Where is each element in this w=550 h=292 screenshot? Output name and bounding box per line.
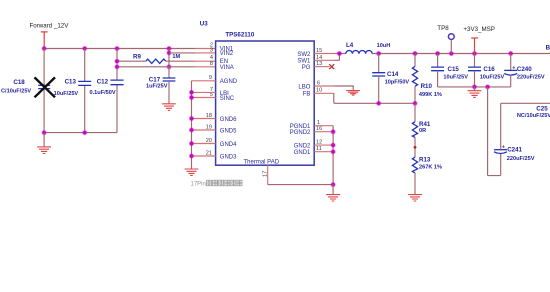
pin PG stub <box>314 66 329 68</box>
pin VIN2 stub <box>196 52 216 54</box>
wire VIN2 <box>169 52 196 54</box>
svg-text:R10: R10 <box>421 83 433 90</box>
wire output ground bus <box>438 86 511 88</box>
svg-text:FB: FB <box>303 92 311 98</box>
svg-text:3: 3 <box>210 47 213 53</box>
wire VIN link vertical <box>168 49 170 67</box>
junction VIN bus at C13 <box>82 46 87 51</box>
note text 17Pin thermal pad (Chinese) <box>191 180 243 187</box>
svg-text:Forward _12V: Forward _12V <box>30 23 70 30</box>
svg-text:GND6: GND6 <box>220 117 237 123</box>
junction FB at R10/R41 <box>412 101 417 106</box>
svg-text:PGND2: PGND2 <box>290 130 311 136</box>
junction bracket at LBI <box>189 90 194 95</box>
pin GND2 stub <box>314 144 333 146</box>
svg-text:C/10uF/25V: C/10uF/25V <box>1 89 31 95</box>
svg-text:TPS62110: TPS62110 <box>225 31 254 38</box>
wire C25 net to edge <box>501 102 550 104</box>
wire AGND/GND bracket vertical <box>191 81 193 169</box>
wire FB down and right <box>334 93 415 103</box>
junction VIN bus at C18 <box>42 46 47 51</box>
ground below R13 <box>408 195 422 201</box>
wire C241 branch left vertical <box>488 87 501 176</box>
svg-text:SW1: SW1 <box>297 59 311 65</box>
junction bracket at GND4 <box>189 141 194 146</box>
resistor R9 <box>133 54 181 64</box>
svg-text:L4: L4 <box>346 42 354 49</box>
junction link at VINA/C17 <box>166 64 171 69</box>
ground below input bus <box>37 133 51 154</box>
pin LBO stub <box>314 85 334 87</box>
svg-text:Thermal PAD: Thermal PAD <box>244 160 280 166</box>
capacitor C17 <box>146 67 175 104</box>
junction bus at C16/+3V3 <box>472 51 477 56</box>
capacitor C240 (polarized) <box>504 54 545 87</box>
junction bracket at GND6 <box>189 116 194 121</box>
junction bus at R10 <box>412 51 417 56</box>
svg-text:GND1: GND1 <box>294 150 311 156</box>
junction bracket at GND3 <box>189 153 194 158</box>
ground below C17 <box>162 104 176 111</box>
svg-text:R13: R13 <box>419 157 431 164</box>
svg-text:10uH: 10uH <box>377 43 391 49</box>
pin LBI stub <box>192 91 216 93</box>
junction bracket at SINC <box>189 95 194 100</box>
svg-text:499K 1%: 499K 1% <box>419 92 442 98</box>
junction bus at C15 <box>435 51 440 56</box>
pin GND3 stub <box>192 155 216 157</box>
svg-text:C14: C14 <box>387 71 399 78</box>
junction bracket at PGND2 <box>331 129 336 134</box>
pin PGND2 stub <box>314 131 333 133</box>
inductor L4 <box>346 42 390 54</box>
svg-text:NC/10uF/25V: NC/10uF/25V <box>517 113 550 119</box>
junction gnd bus at C16 <box>472 84 477 89</box>
pin SINC stub <box>192 97 216 99</box>
wire SW1 up to SW node <box>334 54 339 61</box>
test point TP8 <box>437 25 454 54</box>
svg-text:0R: 0R <box>419 128 426 134</box>
svg-text:+: + <box>512 66 515 72</box>
svg-text:C13: C13 <box>65 79 77 86</box>
capacitor C14 <box>372 54 409 104</box>
svg-text:1M: 1M <box>172 54 180 60</box>
junction VIN bus at link <box>166 46 171 51</box>
svg-text:GND3: GND3 <box>220 154 237 160</box>
wire output bus <box>372 53 550 55</box>
svg-text:R41: R41 <box>419 121 431 128</box>
power port +3V3_MSP <box>463 26 494 54</box>
junction gnd bus at C241 branch <box>485 84 490 89</box>
wire EN right lead <box>166 60 196 62</box>
resistor R10 <box>412 54 442 104</box>
pin GND1 stub <box>314 151 333 153</box>
svg-text:220uF/25V: 220uF/25V <box>507 156 535 162</box>
svg-text:PG: PG <box>302 65 311 71</box>
junction VINA at C12 column <box>114 64 119 69</box>
svg-text:+: + <box>502 145 505 151</box>
no-connect X on PG <box>329 64 334 69</box>
svg-text:TP8: TP8 <box>437 25 449 32</box>
svg-text:SW2: SW2 <box>297 52 311 58</box>
pin GND6 stub <box>192 118 216 120</box>
svg-text:0.1uF/50V: 0.1uF/50V <box>90 90 116 96</box>
junction bus at C240 <box>508 51 513 56</box>
svg-text:GND4: GND4 <box>220 142 237 148</box>
wire VIN top bus <box>44 48 196 50</box>
junction bus at TP8 <box>449 51 454 56</box>
svg-text:C241: C241 <box>507 146 522 153</box>
capacitor C13 <box>54 49 92 133</box>
capacitor C16 <box>468 54 505 87</box>
ground below thermal pad net <box>326 185 340 201</box>
IC U3 TPS62110 body <box>200 20 314 165</box>
capacitor C18 (DNP, crossed out) <box>1 49 55 133</box>
power port Forward _12V <box>30 23 70 48</box>
svg-text:C15: C15 <box>448 66 460 73</box>
wire SW2 to L4 <box>334 53 346 55</box>
wire EN left lead <box>117 60 146 62</box>
svg-text:LBO: LBO <box>298 84 310 90</box>
node between R41 and R13 <box>414 146 417 149</box>
svg-text:10uF/25V: 10uF/25V <box>54 91 79 97</box>
wire LBO to ground <box>334 85 354 87</box>
svg-text:C25: C25 <box>536 105 548 112</box>
svg-text:C240: C240 <box>517 66 532 73</box>
capacitor C15 <box>431 54 468 87</box>
svg-text:8: 8 <box>210 61 213 67</box>
svg-text:VINA: VINA <box>220 65 234 71</box>
svg-text:17Pin: 17Pin <box>191 182 206 188</box>
svg-text:267K 1%: 267K 1% <box>419 165 442 171</box>
junction VIN bus at C12 <box>114 46 119 51</box>
junction SW node <box>337 51 342 56</box>
ground below AGND bracket <box>185 169 199 175</box>
svg-text:10uF/25V: 10uF/25V <box>480 75 505 81</box>
pin GND5 stub <box>192 129 216 131</box>
pin AGND stub <box>192 80 216 82</box>
junction link at VIN2 <box>166 50 171 55</box>
capacitor C12 <box>90 49 124 133</box>
wire input bottom bus <box>44 132 117 134</box>
wire VINA <box>117 66 196 68</box>
junction bottom bus at C18/ground <box>42 130 47 135</box>
capacitor C25 labels (part off-page) <box>517 105 550 118</box>
junction thermal pad net <box>331 182 336 187</box>
junction FB at C14 <box>376 101 381 106</box>
svg-text:C17: C17 <box>149 76 161 83</box>
svg-text:10pF/50V: 10pF/50V <box>385 80 410 86</box>
junction bottom bus at C13 <box>82 130 87 135</box>
svg-text:VIN2: VIN2 <box>220 51 234 57</box>
junction bracket at GND1 <box>331 149 336 154</box>
svg-text:AGND: AGND <box>220 79 238 85</box>
resistor R13 <box>412 157 442 195</box>
wire PGND bracket vertical <box>332 126 334 185</box>
svg-text:GND5: GND5 <box>220 128 237 134</box>
junction bracket at GND2 <box>331 143 336 148</box>
svg-text:C16: C16 <box>483 66 495 73</box>
svg-text:SINC: SINC <box>220 96 235 102</box>
svg-text:C12: C12 <box>97 78 109 85</box>
pin GND4 stub <box>192 143 216 145</box>
pin VINA stub <box>196 66 216 68</box>
pin SW2 stub <box>314 53 334 55</box>
svg-text:220uF/25V: 220uF/25V <box>517 75 545 81</box>
svg-text:C18: C18 <box>13 79 25 86</box>
ground on LBO <box>346 86 360 95</box>
junction bus at C14 <box>376 51 381 56</box>
ground below C16 <box>468 87 482 98</box>
svg-text:B: B <box>546 44 550 51</box>
pin SW1 stub <box>314 59 334 61</box>
svg-text:U3: U3 <box>200 20 208 27</box>
pin FB stub <box>314 92 334 94</box>
svg-text:GND2: GND2 <box>294 144 311 150</box>
resistor R41 <box>412 103 431 157</box>
junction bracket at GND5 <box>189 127 194 132</box>
capacitor C241 (polarized) <box>494 103 535 175</box>
pin PGND1 stub <box>314 125 333 127</box>
wire thermal pad to ground <box>268 184 333 186</box>
pin Thermal PAD 17 stub <box>267 165 269 184</box>
svg-text:1uF/25V: 1uF/25V <box>146 84 168 90</box>
pin VIN1 stub <box>196 48 216 50</box>
junction EN at C12 column <box>114 59 119 64</box>
svg-text:+3V3_MSP: +3V3_MSP <box>463 26 494 33</box>
pin EN stub <box>196 60 216 62</box>
svg-text:10uF/25V: 10uF/25V <box>443 75 468 81</box>
svg-text:R9: R9 <box>133 54 141 61</box>
